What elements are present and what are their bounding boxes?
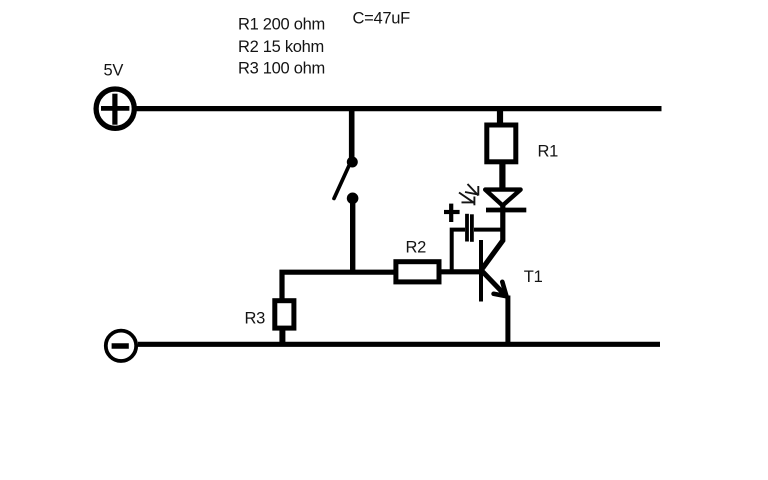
wire capacitor right plate to collector bbox=[474, 228, 503, 232]
positive supply terminal bbox=[96, 89, 134, 128]
svg-text:C=47uF: C=47uF bbox=[353, 9, 411, 27]
switch S1 lower contact dot bbox=[347, 193, 359, 205]
resistor R3 bbox=[275, 301, 294, 328]
transistor T1 base bar bbox=[479, 240, 483, 302]
resistor R2 bbox=[396, 262, 439, 282]
transistor T1 collector lead bbox=[482, 204, 503, 270]
switch S1 pivot dot bbox=[347, 157, 358, 168]
light arrow lower bbox=[459, 193, 475, 206]
wire R3 to bottom rail bbox=[279, 329, 285, 344]
wire base bus (R3 corner to R2) bbox=[282, 272, 395, 300]
transistor T1 emitter lead bbox=[481, 270, 506, 296]
svg-text:R2 15 kohm: R2 15 kohm bbox=[238, 38, 324, 56]
svg-text:R1: R1 bbox=[538, 143, 559, 161]
switch S1 blade bbox=[334, 163, 350, 199]
capacitor C right plate bbox=[470, 214, 474, 242]
light arrow upper bbox=[465, 184, 478, 196]
svg-text:5V: 5V bbox=[104, 62, 124, 80]
resistor R1 bbox=[487, 125, 516, 162]
switch S1 lower wire bbox=[350, 198, 355, 273]
switch S1 upper wire bbox=[349, 108, 355, 160]
capacitor C plus sign bbox=[444, 204, 460, 222]
svg-text:R1 200 ohm: R1 200 ohm bbox=[238, 16, 325, 34]
LED D1 cathode bar bbox=[486, 208, 526, 213]
wire capacitor left plate to base bus bbox=[452, 230, 465, 272]
wire emitter to bottom rail bbox=[505, 296, 510, 345]
wire R2 to transistor base bbox=[441, 269, 482, 274]
svg-text:R3: R3 bbox=[245, 309, 266, 327]
svg-text:R3 100 ohm: R3 100 ohm bbox=[238, 60, 325, 78]
bottom rail wire bbox=[138, 342, 660, 347]
wire R1 to LED bbox=[499, 162, 505, 192]
capacitor C left plate bbox=[465, 214, 469, 242]
transistor T1 emitter arrowhead bbox=[494, 282, 507, 296]
wire rail to R1 bbox=[497, 108, 503, 124]
negative supply terminal bbox=[106, 331, 136, 361]
svg-text:R2: R2 bbox=[406, 238, 427, 256]
top rail wire bbox=[135, 106, 662, 111]
svg-text:T1: T1 bbox=[524, 268, 543, 286]
LED D1 triangle bbox=[485, 190, 520, 206]
